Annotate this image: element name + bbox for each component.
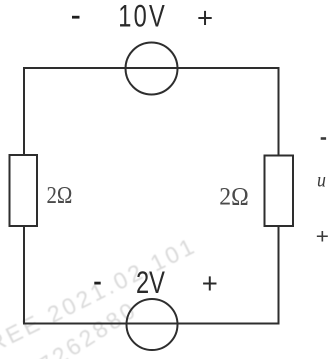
watermark (decorative) [0,232,201,359]
svg-text:2V: 2V [136,265,165,300]
svg-text:10V: 10V [118,0,167,33]
svg-text:u: u [317,169,326,192]
polarity - of 10V [72,16,80,19]
svg-text:+: + [316,224,329,248]
voltage source 2V (bottom) [127,299,178,350]
voltage source 10V (top) [126,43,178,95]
svg-text:+: + [202,266,218,299]
resistor R1 (left 2 ohm) [10,155,38,226]
svg-text:2Ω: 2Ω [219,183,248,211]
wire bottom [24,323,279,325]
wire left [23,67,25,325]
resistor R2 (right 2 ohm) [265,156,294,227]
svg-text:+: + [197,1,213,34]
svg-text:2Ω: 2Ω [47,181,73,208]
polarity - of u [321,137,326,140]
wire top [24,67,279,69]
wire right [278,67,280,325]
polarity - of 2V [94,282,100,285]
